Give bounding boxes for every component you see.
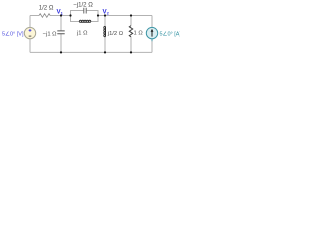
node V1 dot bbox=[60, 14, 62, 16]
wire bottom bbox=[30, 51, 152, 53]
svg-text:−j1 Ω: −j1 Ω bbox=[43, 31, 58, 37]
svg-text:−j1/2 Ω: −j1/2 Ω bbox=[73, 1, 93, 8]
wire top right bbox=[98, 15, 152, 17]
wire right vertical above source bbox=[151, 16, 153, 28]
resistor 1 ohm (vertical) bbox=[129, 26, 132, 37]
capacitor -j1/2 ohm (parallel top branch) bbox=[84, 8, 86, 14]
node bottom below V2 bbox=[104, 51, 106, 53]
wire V2 branch upper bbox=[104, 16, 106, 27]
resistor 1/2 ohm (top) bbox=[39, 14, 50, 18]
svg-text:j1/2 Ω: j1/2 Ω bbox=[107, 31, 124, 37]
node bottom below 1-ohm bbox=[130, 51, 132, 53]
wire 1-ohm branch upper bbox=[130, 16, 132, 26]
node top 1-ohm junction bbox=[130, 14, 132, 16]
inductor j1 ohm (parallel bottom branch) bbox=[79, 20, 91, 22]
wire right vertical below source bbox=[151, 41, 153, 52]
wire left vertical above source bbox=[29, 16, 31, 28]
svg-text:V2: V2 bbox=[103, 8, 110, 15]
svg-text:5∠0° [A]: 5∠0° [A] bbox=[160, 31, 181, 38]
wire top middle bbox=[50, 15, 71, 17]
wire V1 branch upper bbox=[60, 16, 62, 31]
svg-text:1/2 Ω: 1/2 Ω bbox=[39, 4, 54, 11]
wire 1-ohm branch lower bbox=[130, 37, 132, 53]
wire parallel block top path bbox=[71, 11, 99, 16]
capacitor -j1 ohm (below V1) bbox=[57, 31, 64, 34]
wire top left lead bbox=[30, 15, 39, 17]
node parallel left junction bbox=[69, 14, 71, 16]
node bottom below V1 bbox=[60, 51, 62, 53]
voltage source Vs 5 angle 0 V bbox=[24, 27, 35, 38]
svg-text:5∠0° [V]: 5∠0° [V] bbox=[2, 31, 24, 38]
svg-text:1 Ω: 1 Ω bbox=[134, 31, 144, 37]
wire V1 branch lower bbox=[60, 34, 62, 53]
wire parallel block bottom path bbox=[71, 16, 99, 22]
inductor j1/2 ohm (below V2) bbox=[104, 26, 106, 36]
node parallel right junction bbox=[97, 14, 99, 16]
wire V2 branch lower bbox=[104, 37, 106, 53]
wire left vertical below source bbox=[29, 39, 31, 53]
svg-text:j1 Ω: j1 Ω bbox=[76, 30, 88, 36]
node V2 dot bbox=[104, 14, 106, 16]
svg-text:V1: V1 bbox=[57, 8, 64, 15]
current source Is 5 angle 0 A bbox=[146, 27, 157, 41]
